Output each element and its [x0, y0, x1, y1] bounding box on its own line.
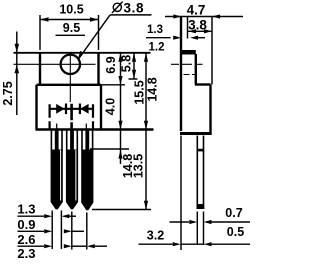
diode D1 cathode bar [65, 104, 67, 115]
dimension 6.9 tab height and 4.0 (chained line) [104, 53, 123, 164]
dimension 4.7/3.8 package thickness [165, 3, 243, 39]
pin 3 (anode lead) [81, 130, 93, 210]
mounting hole [61, 55, 80, 74]
hole horizontal centerline [14, 63, 96, 65]
svg-text:13.5: 13.5 [132, 154, 146, 178]
extension line from pin 2 centre [71, 212, 73, 250]
dimension 15.5/14.8 body height [133, 53, 160, 210]
dimension 5.8 hole bottom offset [120, 53, 138, 79]
svg-text:1.3: 1.3 [147, 24, 163, 36]
wire: internal bus joining D1 and D2 [50, 108, 93, 110]
hole vertical centerline [69, 53, 71, 102]
dimension 2.6/2.3 lead pitch [17, 232, 107, 261]
extension line at lead plating transition [90, 148, 129, 150]
dimension 1.3/0.9 lead width [17, 201, 76, 232]
package top edge line [14, 52, 151, 54]
svg-text:0.5: 0.5 [227, 225, 244, 239]
diode D2 (anode triangle) [80, 104, 88, 114]
svg-text:2.6: 2.6 [17, 232, 35, 247]
dimension row to pin 2 centre [18, 229, 85, 233]
extension lines from pin 1 edges [52, 211, 61, 250]
dimension 14.8/13.5 lead length [121, 154, 148, 210]
svg-text:3.2: 3.2 [147, 229, 164, 243]
extension line at lead tips [92, 209, 151, 211]
svg-text:4.0: 4.0 [104, 98, 118, 115]
extension lines from side lead edges [197, 212, 203, 246]
svg-text:6.9: 6.9 [104, 56, 118, 73]
svg-text:9.5: 9.5 [63, 21, 80, 35]
wire: anode lead of diode D2 [92, 104, 94, 128]
package front view: metal tab outline [37, 53, 102, 85]
svg-text:1.3: 1.3 [17, 201, 35, 216]
extension line from pin 3 centre [86, 213, 88, 250]
svg-text:1.2: 1.2 [149, 42, 165, 54]
svg-text:4.7: 4.7 [187, 3, 206, 18]
side view hole centerline (dash-dot) [171, 63, 203, 65]
wire: anode lead of diode D1 [48, 104, 50, 128]
extension line from front face [211, 16, 213, 85]
diode D2 cathode bar [79, 104, 81, 115]
svg-text:15.5: 15.5 [133, 80, 147, 104]
side view tab front face [195, 54, 197, 84]
package front view: plastic body outline [36, 85, 154, 130]
dimension 2.75 hole centre offset [1, 32, 19, 116]
extension line at tab/body step [101, 84, 125, 86]
diode D1 (anode triangle) [56, 104, 64, 114]
pin stubs at body exit [57, 124, 87, 129]
svg-text:3.8: 3.8 [124, 1, 145, 16]
svg-text:14.8: 14.8 [146, 77, 160, 101]
side view hole bottom hidden line [184, 74, 198, 76]
svg-text:0.9: 0.9 [17, 217, 35, 232]
wire: common cathode to middle pin [70, 104, 73, 129]
pin 2 (common cathode lead) [66, 130, 78, 209]
svg-text:2.75: 2.75 [1, 81, 15, 105]
side view lead [197, 136, 205, 210]
side view plastic front face [209, 85, 211, 136]
dimension 3.2 lead offset [139, 229, 251, 247]
svg-text:10.5: 10.5 [59, 3, 83, 17]
svg-text:0.7: 0.7 [225, 206, 242, 220]
svg-text:5.8: 5.8 [120, 55, 134, 72]
dimension 10.5/9.5 package width [40, 3, 99, 50]
dimension 0.7/0.5 lead thickness [170, 206, 251, 239]
pin 1 (anode lead) [51, 130, 63, 209]
side view tab top edge [180, 50, 196, 55]
side view body bottom edge [180, 132, 212, 135]
extension line from back face down [180, 136, 182, 251]
hole diameter label 3.8 with leader [77, 1, 151, 61]
side view step to plastic body [195, 83, 211, 85]
svg-text:2.3: 2.3 [17, 246, 35, 261]
package side view: tab back face [180, 16, 182, 131]
dimension 1.3/1.2 tab thickness [146, 24, 205, 54]
